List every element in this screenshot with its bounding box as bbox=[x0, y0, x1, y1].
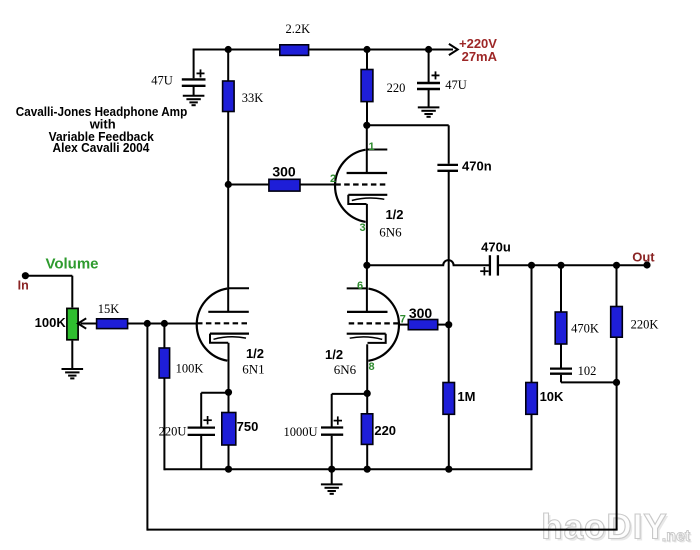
svg-text:47U: 47U bbox=[151, 74, 173, 88]
svg-text:Volume: Volume bbox=[45, 255, 98, 272]
svg-text:10K: 10K bbox=[540, 389, 564, 404]
svg-text:7: 7 bbox=[400, 314, 406, 326]
svg-text:470K: 470K bbox=[571, 322, 599, 336]
svg-text:1/2: 1/2 bbox=[246, 346, 264, 361]
svg-text:220: 220 bbox=[374, 423, 396, 438]
svg-text:1000U: 1000U bbox=[283, 425, 317, 439]
svg-text:Out: Out bbox=[632, 249, 655, 264]
svg-text:27mA: 27mA bbox=[462, 49, 498, 64]
svg-text:33K: 33K bbox=[242, 91, 264, 105]
svg-text:6: 6 bbox=[357, 280, 363, 292]
svg-text:1/2: 1/2 bbox=[325, 347, 343, 362]
svg-text:100K: 100K bbox=[176, 362, 204, 376]
svg-text:15K: 15K bbox=[98, 302, 120, 316]
svg-text:102: 102 bbox=[578, 364, 597, 378]
svg-text:6N1: 6N1 bbox=[242, 362, 264, 377]
svg-text:220: 220 bbox=[387, 81, 406, 95]
svg-text:470u: 470u bbox=[481, 240, 511, 255]
svg-text:100K: 100K bbox=[35, 315, 67, 330]
svg-text:470n: 470n bbox=[462, 158, 492, 173]
svg-text:In: In bbox=[18, 278, 29, 292]
svg-text:3: 3 bbox=[359, 222, 365, 234]
svg-text:220U: 220U bbox=[159, 425, 187, 439]
svg-text:750: 750 bbox=[237, 419, 259, 434]
svg-text:300: 300 bbox=[272, 164, 296, 180]
svg-text:6N6: 6N6 bbox=[379, 225, 402, 240]
svg-text:8: 8 bbox=[368, 361, 374, 373]
svg-text:.net: .net bbox=[662, 528, 691, 545]
svg-text:300: 300 bbox=[409, 305, 433, 321]
svg-text:1M: 1M bbox=[457, 389, 475, 404]
svg-text:1: 1 bbox=[368, 141, 374, 153]
svg-text:2.2K: 2.2K bbox=[285, 22, 310, 36]
svg-text:6N6: 6N6 bbox=[334, 362, 357, 377]
svg-text:220K: 220K bbox=[631, 317, 659, 331]
svg-text:Alex Cavalli 2004: Alex Cavalli 2004 bbox=[53, 140, 151, 155]
svg-text:haoDIY: haoDIY bbox=[541, 508, 668, 547]
svg-text:2: 2 bbox=[330, 173, 336, 185]
svg-text:47U: 47U bbox=[445, 78, 467, 92]
svg-text:1/2: 1/2 bbox=[385, 207, 403, 222]
